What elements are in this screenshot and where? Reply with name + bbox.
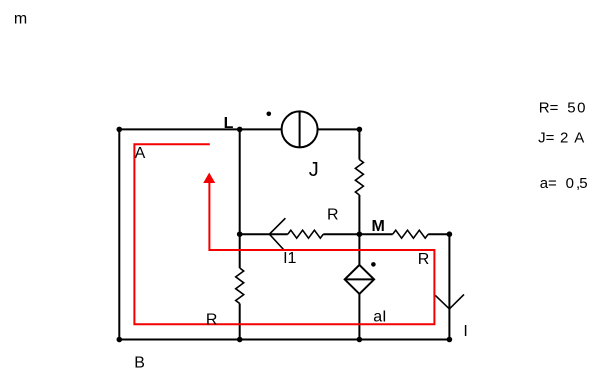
node bottom-right	[447, 337, 453, 343]
wire left column	[118, 129, 120, 339]
svg-text:aI: aI	[373, 309, 386, 326]
resistor R middle row	[288, 230, 324, 238]
wire bottom	[119, 339, 449, 341]
node bottom branch L	[237, 337, 243, 343]
wire M row right	[428, 233, 449, 235]
current arrow I (points down)	[435, 294, 464, 309]
node row-left	[237, 231, 243, 237]
wire M row middle	[323, 233, 392, 235]
wire top-left segment (node to current source)	[119, 128, 281, 130]
polarity dot of source J	[267, 112, 272, 117]
svg-text:5: 5	[567, 99, 575, 116]
svg-text:A: A	[135, 145, 146, 162]
polarity dot of source aI	[371, 262, 376, 267]
wire dependent source lower	[358, 294, 360, 340]
svg-text:B: B	[134, 355, 145, 372]
wire dependent source upper	[358, 234, 360, 265]
svg-text:0: 0	[566, 175, 574, 192]
svg-text:R=: R=	[539, 99, 559, 116]
wire top-right segment (current source to right corner)	[318, 128, 360, 130]
mesh arrow head (red)	[203, 173, 215, 183]
wire right column	[448, 234, 450, 339]
svg-text:R: R	[206, 311, 218, 328]
wire branch L upper	[239, 129, 241, 268]
node M	[357, 231, 363, 237]
wire M row left	[240, 233, 288, 235]
svg-text:A: A	[574, 129, 584, 146]
current source J (circle with vertical bar)	[282, 111, 318, 147]
wire branch J lower	[358, 195, 360, 234]
current arrow I1 (points left)	[269, 218, 285, 250]
resistor R upper-right branch	[355, 160, 363, 196]
svg-text:0: 0	[577, 99, 585, 116]
node bottom branch aI	[357, 337, 363, 343]
node bottom-left B	[117, 337, 123, 343]
svg-text:I: I	[463, 323, 467, 340]
node top-right	[357, 127, 363, 133]
svg-text:J=: J=	[538, 129, 555, 146]
dependent current source aI (diamond with chord)	[345, 265, 374, 294]
svg-text:5: 5	[579, 175, 587, 192]
svg-text:R: R	[327, 207, 339, 224]
resistor R right row	[393, 230, 429, 238]
svg-text:I1: I1	[283, 250, 296, 267]
resistor R left branch	[236, 268, 244, 304]
svg-text:2: 2	[560, 129, 568, 146]
node L	[237, 127, 243, 133]
svg-text:L: L	[224, 115, 234, 132]
svg-text:m: m	[14, 11, 27, 28]
wire branch L lower	[239, 304, 241, 340]
svg-text:J: J	[309, 159, 319, 181]
svg-text:M: M	[372, 218, 385, 235]
node top-left	[117, 127, 123, 133]
node row-right	[447, 231, 453, 237]
svg-text:a=: a=	[540, 175, 557, 192]
wire branch J upper	[358, 129, 360, 159]
svg-text:R: R	[418, 251, 430, 268]
mesh loop m (red)	[134, 144, 434, 324]
